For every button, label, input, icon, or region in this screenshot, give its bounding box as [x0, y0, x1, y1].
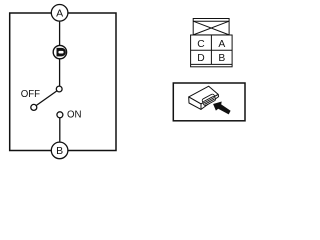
svg-text:B: B — [218, 53, 225, 64]
svg-text:C: C — [197, 39, 205, 50]
svg-text:OFF: OFF — [21, 89, 40, 100]
svg-text:A: A — [56, 7, 63, 19]
svg-text:ON: ON — [67, 109, 82, 120]
svg-text:D: D — [197, 53, 204, 64]
svg-text:A: A — [218, 39, 225, 50]
svg-text:B: B — [56, 145, 63, 157]
